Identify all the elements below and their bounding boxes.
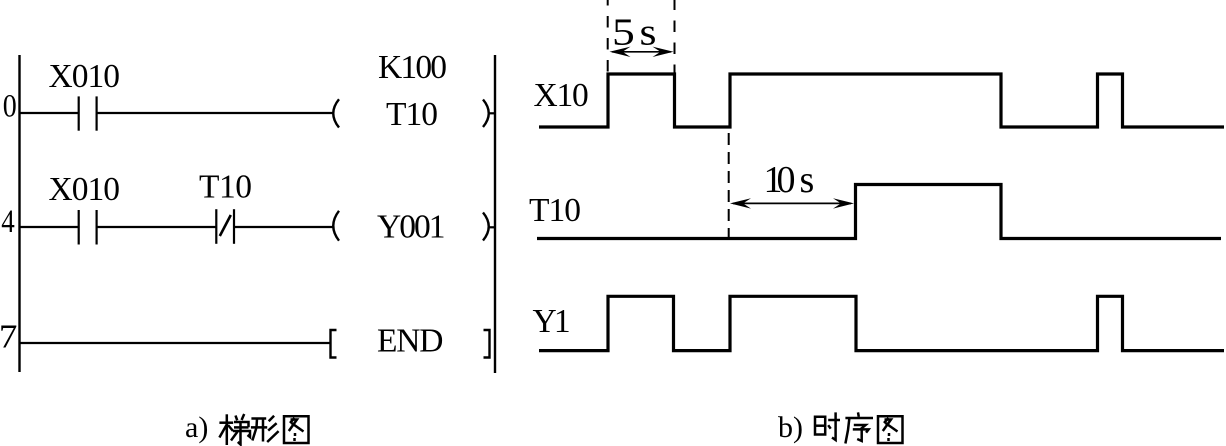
svg-text:X10: X10 [534, 77, 589, 114]
caption b) hanzi xu (sequence) drawn strokes [845, 412, 873, 443]
svg-text:a): a) [185, 411, 208, 444]
caption a) hanzi ti (ladder) drawn strokes [219, 414, 250, 445]
10s dimension arrow [730, 198, 854, 208]
NC contact T10 left bar [215, 209, 217, 244]
dashed guide line at X10 first rising edge [607, 0, 609, 73]
svg-text:s: s [640, 11, 657, 53]
wire rung7 left rail to END bracket [20, 342, 331, 344]
dashed guide line at X10 second rising edge [728, 133, 730, 237]
contact X010 rung0 left bar [78, 96, 80, 130]
ladder right power rail [494, 55, 496, 373]
wire stub coil Y001 to right rail [488, 226, 495, 228]
contact X010 rung4 right bar [95, 210, 97, 245]
dashed guide line at X10 first falling edge [674, 0, 676, 73]
waveform Y1 [539, 296, 1224, 350]
svg-text:X010: X010 [49, 58, 120, 95]
caption b) hanzi shi (time) drawn strokes [815, 412, 840, 440]
svg-text:Y1: Y1 [533, 303, 569, 340]
svg-text:X010: X010 [49, 171, 120, 208]
svg-text:T10: T10 [529, 192, 580, 229]
caption a) hanzi xing (shape) drawn strokes [251, 416, 279, 442]
svg-text:5: 5 [612, 12, 635, 54]
contact X010 rung4 left bar [78, 210, 80, 245]
wire rung4 contact T10 to coil [234, 226, 334, 228]
svg-text:T10: T10 [199, 169, 251, 206]
END right bracket [484, 330, 490, 358]
svg-text:b): b) [778, 411, 803, 444]
NC contact T10 slash [220, 215, 231, 236]
wire rung0 left rail to contact X010 [20, 112, 79, 114]
svg-text:4: 4 [1, 204, 15, 240]
caption a) hanzi tu (diagram) drawn strokes [284, 416, 309, 443]
wire rung4 left rail to contact X010 [20, 226, 79, 228]
svg-text:END: END [377, 323, 442, 360]
5s dimension arrow [610, 47, 674, 57]
wire stub coil T10 to right rail [488, 112, 495, 114]
coil Y001 right parenthesis [483, 213, 489, 241]
END left bracket [331, 330, 337, 358]
svg-text:Y001: Y001 [377, 209, 444, 246]
svg-text:7: 7 [0, 319, 17, 356]
svg-text:0: 0 [3, 89, 17, 125]
waveform X10 [539, 74, 1224, 127]
caption b) hanzi tu (diagram) drawn strokes [878, 416, 903, 443]
wire rung4 contact X010 to contact T10 [97, 226, 217, 228]
svg-text:s: s [800, 159, 815, 201]
svg-text:T10: T10 [386, 96, 437, 133]
NC contact T10 right bar [233, 209, 235, 244]
contact X010 rung0 right bar [95, 96, 97, 130]
waveform T10 [537, 185, 1221, 239]
coil T10 right parenthesis [483, 100, 489, 128]
ladder left power rail [18, 55, 20, 372]
wire rung0 contact to coil [97, 112, 334, 114]
svg-text:0: 0 [777, 159, 796, 201]
coil Y001 left parenthesis [333, 211, 339, 241]
coil T10 left parenthesis [333, 99, 339, 127]
svg-text:K100: K100 [378, 49, 446, 86]
